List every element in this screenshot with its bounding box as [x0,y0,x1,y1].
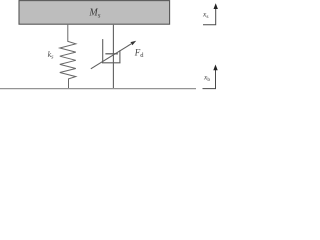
svg-text:Fd: Fd [134,47,145,59]
variable-damper diagonal arrow shaft [91,44,132,69]
damper rod (from mass through cup to base) [112,25,114,89]
damper cup right wall [119,50,121,63]
svg-text:xb: xb [203,73,210,83]
damper piston plate [105,53,118,55]
svg-text:ks: ks [48,50,55,61]
svg-text:xs: xs [202,10,208,20]
mass Ms (sprung mass block) [19,1,170,25]
damper cup bottom [102,62,121,64]
axis xs: corner line [203,9,216,25]
axis xb: corner line [203,70,216,89]
damper cup left wall [102,39,104,63]
base line (road/base) [0,88,196,90]
axis xb: arrowhead [213,65,217,71]
spring ks (zigzag with leads) [60,25,76,89]
axis xs: arrowhead [214,3,218,9]
variable-damper arrowhead [131,41,137,46]
